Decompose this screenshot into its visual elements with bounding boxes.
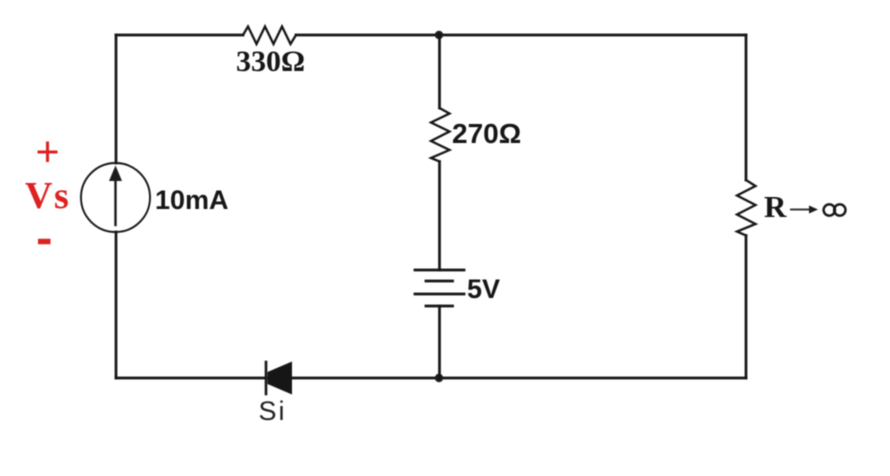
svg-text:330Ω: 330Ω [236,45,305,78]
current source I1 circle [81,163,150,232]
wire left lower segment [115,232,118,378]
minus sign of Vs (red) [38,239,51,245]
label arrow of R to infinity [791,209,812,211]
wire right lower segment [745,236,748,379]
battery V1 plate short bottom [426,305,453,308]
infinity symbol [824,204,835,215]
resistor R2 270ohm (middle zigzag) [431,108,450,162]
svg-text:R: R [764,189,787,224]
current source I1 arrow head [109,166,122,182]
battery V1 plate long bottom [415,293,464,296]
wire middle between resistor and battery [438,162,441,271]
battery V1 plate short [426,280,453,283]
svg-text:10mA: 10mA [155,185,229,215]
resistor R1 330ohm (top zigzag) [243,27,296,45]
plus sign of Vs (red) [38,142,58,163]
resistor R3 (right zigzag, R to infinity) [737,180,756,236]
wire left upper segment [115,35,118,163]
svg-text:5V: 5V [467,274,500,304]
wire middle lower segment [438,306,441,378]
wire top-left segment [116,34,243,37]
wire middle upper segment [438,35,441,108]
diode D1 triangle [268,362,293,395]
node A (top junction dot) [435,31,443,39]
wire bottom-left segment [116,377,266,380]
battery V1 plate long top [415,269,464,272]
node B (bottom junction dot) [435,374,443,382]
wire bottom-right segment [292,377,746,380]
wire top-right segment [296,34,746,37]
svg-text:Vs: Vs [25,175,70,217]
svg-text:Si: Si [259,396,287,426]
current source I1 arrow shaft [114,180,116,225]
wire right upper segment [745,35,748,180]
svg-text:270Ω: 270Ω [452,118,521,149]
diode D1 cathode bar [265,362,268,394]
